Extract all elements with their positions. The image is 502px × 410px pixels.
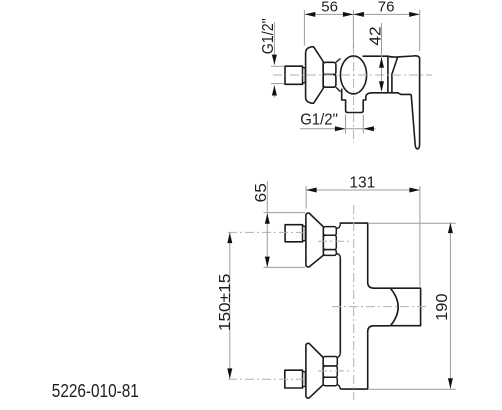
bottom view bottom nut cells: [323, 357, 337, 367]
bottom view bottom flange: [306, 343, 323, 398]
svg-text:131: 131: [349, 175, 375, 192]
bottom view top pipe collar: [303, 226, 306, 241]
centerline vertical top view body axis: [353, 45, 355, 143]
extension line middle (body axis) for dims 56/76: [352, 10, 354, 48]
centerline horizontal top view: [273, 74, 432, 76]
svg-text:5226-010-81: 5226-010-81: [52, 381, 139, 401]
dim 131 extension left: [305, 186, 307, 209]
bottom view column left edge between nuts: [339, 257, 341, 353]
top view neck upper slant: [336, 59, 341, 63]
extension line right (handle tip) for dim 76: [419, 10, 421, 51]
dimension line 150±15: [229, 233, 231, 379]
arrow down to pipe top: [272, 55, 277, 65]
top view inlet pipe: [285, 66, 303, 84]
arrow right of dim 76: [409, 12, 420, 17]
top view body outline: [363, 56, 420, 94]
handle rectangle bottom view: [390, 288, 420, 326]
fillet column to bottom nut upper: [337, 354, 340, 358]
arrow up to body top edge: [379, 57, 384, 67]
dim 190 extension bottom: [369, 388, 456, 390]
dim 42: vertical dimension line with outward arrows: [381, 23, 383, 91]
svg-text:G1/2": G1/2": [260, 18, 277, 54]
arrow left to outlet right edge: [363, 126, 374, 131]
dim G1/2 outlet: leader line: [300, 128, 376, 130]
svg-text:42: 42: [368, 26, 385, 45]
centerline top nut: [318, 240, 351, 242]
dim 190 extension top: [369, 222, 456, 224]
top view cartridge ellipse: [340, 56, 366, 94]
svg-text:190: 190: [434, 293, 451, 320]
bottom view top pipe: [285, 225, 303, 242]
centerline horizontal handle axis: [332, 306, 429, 308]
extension lines for inlet pipe diameter: [271, 65, 284, 67]
top view wall flange: [306, 47, 324, 103]
dimension line 131: [306, 189, 420, 191]
top view union nut cell 2: [323, 75, 336, 88]
fillet column to bottom nut lower: [337, 385, 340, 389]
bottom view bottom pipe collar: [303, 372, 306, 387]
dimension line 56/76: [305, 13, 420, 15]
arrow down to body bottom edge: [379, 81, 384, 92]
arrows bowtie at shared extension of 56/76: [343, 12, 364, 17]
arrow left of dim 56: [305, 12, 316, 17]
handle lever arc bottom view: [390, 288, 398, 326]
centerline vertical body axis bottom view: [353, 205, 355, 400]
svg-text:56: 56: [321, 0, 338, 16]
bottom view top flange: [306, 213, 324, 267]
arrow up 190: [448, 223, 453, 234]
centerline bottom pipe: [228, 378, 306, 380]
bottom view bottom pipe: [285, 370, 303, 388]
fillet column to top nut upper: [336, 225, 340, 229]
arrow up 150±15: [227, 233, 232, 244]
svg-text:150±15: 150±15: [217, 274, 234, 332]
svg-text:76: 76: [378, 0, 395, 16]
arrow up 65: [265, 213, 270, 224]
top view union nut cell 1: [323, 62, 336, 74]
extension lines outlet: [345, 115, 347, 134]
bottom view top nut cells: [323, 227, 336, 236]
svg-text:G1/2": G1/2": [300, 112, 338, 129]
fillet column to top nut lower: [336, 253, 340, 257]
arrow down 65: [265, 257, 270, 268]
top view underside and outlet block: [342, 89, 412, 113]
extension line left (wall plane) for dim 56: [303, 10, 305, 46]
svg-text:65: 65: [253, 183, 270, 202]
dim 65 extension bottom: [264, 266, 306, 268]
top view handle lever blade: [411, 94, 419, 149]
arrow down 150±15: [227, 368, 232, 379]
dim 131 extension right: [419, 186, 421, 287]
arrow right to outlet left edge: [335, 126, 346, 131]
top view pipe collar: [303, 68, 306, 83]
centerline top pipe: [228, 231, 306, 233]
dimension line 190: [449, 223, 451, 389]
arrow down 190: [448, 378, 453, 389]
bottom view body column: [340, 223, 390, 389]
arrow up to pipe bottom: [272, 85, 277, 95]
centerline bottom nut: [318, 370, 351, 372]
dim G1/2 inlet: vertical dimension line: [273, 22, 275, 65]
arrow right 131: [409, 188, 420, 193]
dimension line 65: [266, 181, 268, 267]
dim 65 extension top: [264, 212, 306, 214]
arrow left 131: [306, 188, 317, 193]
top view neck lower slant: [336, 87, 341, 92]
